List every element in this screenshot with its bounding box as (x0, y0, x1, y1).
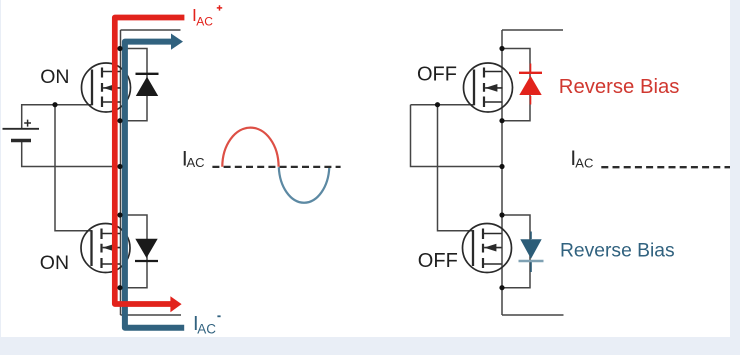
svg-text:ON: ON (40, 66, 69, 88)
svg-text:Reverse Bias: Reverse Bias (560, 241, 675, 262)
svg-text:AC: AC (187, 155, 205, 170)
svg-text:ON: ON (40, 252, 69, 274)
svg-text:OFF: OFF (418, 250, 458, 272)
svg-text:AC: AC (196, 15, 213, 29)
svg-text:AC: AC (197, 321, 216, 336)
svg-text:OFF: OFF (417, 63, 457, 85)
svg-text:AC: AC (575, 155, 593, 170)
svg-text:Reverse Bias: Reverse Bias (559, 76, 680, 98)
